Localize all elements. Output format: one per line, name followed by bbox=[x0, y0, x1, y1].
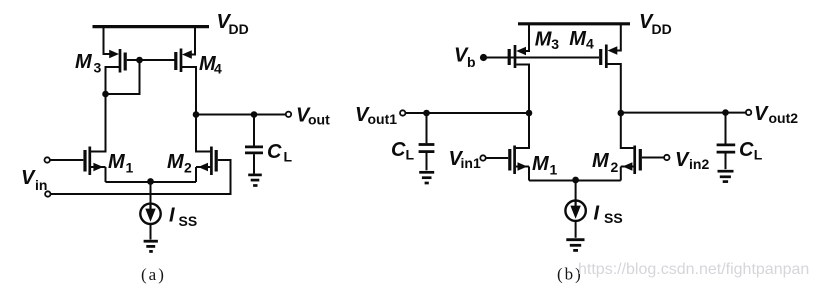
node M3 gate junction (a) bbox=[136, 57, 143, 64]
svg-text:M: M bbox=[569, 28, 587, 50]
wire M2 gate to Vin2 terminal (b) bbox=[642, 157, 664, 159]
svg-text:I: I bbox=[594, 203, 600, 225]
ground (b) bbox=[566, 240, 584, 251]
svg-text:V: V bbox=[675, 149, 690, 171]
svg-text:4: 4 bbox=[586, 36, 594, 52]
label Vb (b) bbox=[454, 45, 476, 71]
node M3 drain junction (a) bbox=[102, 91, 109, 98]
wire output node to M2 drain (a) bbox=[196, 115, 210, 152]
terminal Vin2 (b) bbox=[664, 155, 669, 160]
svg-text:V: V bbox=[754, 103, 769, 125]
label ISS (b) bbox=[594, 203, 623, 227]
VDD rail (a) bbox=[93, 25, 210, 28]
wire Vin+ to M1 gate (a) bbox=[50, 159, 83, 161]
wire M2 source down (a) bbox=[195, 167, 197, 182]
svg-text:M: M bbox=[167, 151, 185, 173]
wire M3 source to VDD (a) bbox=[104, 27, 111, 54]
svg-text:M: M bbox=[535, 29, 553, 51]
terminal Vb (b) bbox=[480, 54, 487, 61]
node output (a) bbox=[193, 111, 200, 118]
wire output1 node to terminal (b) bbox=[406, 112, 530, 114]
transistor M4 (a) bbox=[176, 49, 192, 73]
transistor M1 (a) bbox=[85, 147, 106, 176]
label Vout (a) bbox=[296, 105, 330, 128]
svg-text:M: M bbox=[108, 151, 126, 173]
svg-text:I: I bbox=[169, 205, 175, 227]
svg-text:https://blog.csdn.net/fightpan: https://blog.csdn.net/fightpanpan bbox=[578, 261, 809, 278]
ground below CL1 (b) bbox=[419, 172, 434, 183]
svg-text:3: 3 bbox=[551, 36, 559, 52]
wire tail node to ISS (b) bbox=[575, 181, 577, 202]
wire Vin1 to M1 gate (b) bbox=[486, 157, 509, 159]
label VDD (b) bbox=[639, 11, 672, 37]
wire output node to terminal (a) bbox=[196, 114, 286, 116]
VDD rail (b) bbox=[518, 22, 630, 25]
wire M3 drain to M1 drain (a) bbox=[91, 94, 106, 152]
label CL (a) bbox=[267, 141, 293, 165]
wire M3 gate-drain diode connection (a) bbox=[106, 60, 140, 94]
wire M4 source to VDD (b) bbox=[614, 24, 621, 51]
label Vout1 (b) bbox=[355, 104, 397, 127]
wire Vb to gates of M3 M4 (b) bbox=[484, 57, 600, 59]
label M1 (b) bbox=[532, 153, 558, 178]
node CL junction (a) bbox=[251, 111, 258, 118]
wire M1 source down (b) bbox=[528, 167, 530, 181]
wire M3 source to VDD (b) bbox=[522, 24, 529, 51]
svg-text:L: L bbox=[406, 147, 415, 163]
svg-text:1: 1 bbox=[126, 160, 134, 176]
wire M4 drain to output node (a) bbox=[182, 67, 196, 115]
label Vout2 (b) bbox=[754, 103, 798, 126]
ground below CL (a) bbox=[248, 175, 262, 186]
svg-text:2: 2 bbox=[611, 159, 619, 175]
wire ISS to ground (a) bbox=[150, 224, 152, 240]
label Vin1 (b) bbox=[449, 148, 481, 171]
current source ISS (a) bbox=[140, 204, 160, 224]
label CL1 (b) bbox=[391, 139, 415, 163]
wire M3 drain to output1 node (b) bbox=[516, 65, 529, 114]
node output1 (b) bbox=[526, 110, 533, 117]
label Vin (a) bbox=[21, 167, 47, 193]
label ISS (a) bbox=[169, 205, 197, 230]
svg-text:SS: SS bbox=[179, 213, 198, 229]
svg-text:L: L bbox=[754, 147, 763, 163]
wire common source rail (b) bbox=[529, 180, 621, 182]
svg-text:C: C bbox=[267, 141, 282, 163]
wire M1 drain to output1 node (b) bbox=[516, 113, 529, 148]
label M4 (a) bbox=[199, 53, 222, 77]
transistor M3 (a) bbox=[109, 49, 125, 73]
wire common source rail (a) bbox=[106, 181, 197, 183]
svg-text:out1: out1 bbox=[368, 111, 398, 127]
terminal Vin- (a) bbox=[45, 191, 50, 196]
svg-text:V: V bbox=[21, 167, 36, 189]
terminal Vout2 (b) bbox=[746, 110, 751, 115]
label M1 (a) bbox=[108, 151, 134, 176]
current source ISS (b) bbox=[565, 201, 585, 221]
svg-text:M: M bbox=[75, 51, 93, 73]
svg-text:4: 4 bbox=[214, 61, 222, 77]
svg-text:M: M bbox=[592, 150, 610, 172]
node tail (b) bbox=[572, 177, 579, 184]
transistor M2 (a) bbox=[196, 147, 216, 176]
label M3 (a) bbox=[75, 51, 102, 76]
svg-text:2: 2 bbox=[184, 160, 192, 176]
capacitor CL1 (b) bbox=[419, 113, 435, 170]
wire M2 drain to output2 node (b) bbox=[621, 113, 634, 148]
terminal Vout1 (b) bbox=[400, 110, 405, 115]
watermark bbox=[578, 261, 809, 278]
transistor M4 (b) bbox=[601, 45, 618, 69]
capacitor CL (a) bbox=[245, 115, 263, 174]
node CL2 junction (b) bbox=[722, 109, 729, 116]
wire tail node to ISS (a) bbox=[150, 182, 152, 204]
node output2 (b) bbox=[618, 110, 625, 117]
label M4 (b) bbox=[569, 28, 594, 52]
terminal Vout (a) bbox=[286, 112, 291, 117]
svg-text:C: C bbox=[739, 139, 754, 161]
wire M4 drain to output2 node (b) bbox=[608, 64, 621, 113]
node tail (a) bbox=[147, 178, 154, 185]
node CL1 junction (b) bbox=[423, 110, 430, 117]
wire output2 node to terminal (b) bbox=[621, 112, 746, 114]
svg-text:in: in bbox=[35, 177, 47, 193]
transistor M2 (b) bbox=[621, 146, 641, 175]
wire M3 drain (a) bbox=[106, 67, 120, 94]
svg-text:in1: in1 bbox=[461, 155, 481, 171]
ground below CL2 (b) bbox=[718, 171, 734, 181]
label VDD (a) bbox=[217, 11, 249, 37]
wire M4 source to VDD (a) bbox=[188, 27, 195, 55]
svg-text:M: M bbox=[532, 153, 550, 175]
svg-text:C: C bbox=[391, 139, 406, 161]
svg-text:1: 1 bbox=[550, 162, 558, 178]
label Vin2 (b) bbox=[675, 149, 709, 172]
svg-text:L: L bbox=[284, 149, 293, 165]
svg-text:in2: in2 bbox=[689, 156, 709, 172]
label M3 (b) bbox=[535, 29, 560, 53]
wire M2 source down (b) bbox=[620, 167, 622, 181]
label M2 (a) bbox=[167, 151, 192, 176]
wire ISS to ground (b) bbox=[575, 221, 577, 238]
transistor M3 (b) bbox=[509, 45, 526, 68]
wire M1 source down (a) bbox=[105, 167, 107, 182]
label CL2 (b) bbox=[739, 139, 763, 163]
caption (b) bbox=[557, 265, 583, 284]
capacitor CL2 (b) bbox=[717, 113, 736, 170]
wire M3 gate to M4 gate (a) bbox=[127, 59, 175, 61]
svg-text:3: 3 bbox=[94, 60, 102, 76]
label M2 (b) bbox=[592, 150, 619, 175]
svg-text:(a): (a) bbox=[141, 265, 166, 284]
svg-text:DD: DD bbox=[229, 21, 249, 37]
transistor M1 (b) bbox=[510, 146, 529, 175]
terminal Vin+ (a) bbox=[45, 157, 50, 162]
svg-text:b: b bbox=[467, 54, 476, 70]
svg-text:out: out bbox=[308, 112, 330, 128]
ground (a) bbox=[144, 241, 158, 251]
svg-text:DD: DD bbox=[652, 21, 672, 37]
caption (a) bbox=[141, 265, 166, 284]
terminal Vin1 (b) bbox=[480, 155, 485, 160]
svg-text:SS: SS bbox=[604, 210, 623, 226]
wire M2 gate to Vin- terminal (a) bbox=[51, 160, 231, 194]
svg-text:out2: out2 bbox=[769, 110, 799, 126]
